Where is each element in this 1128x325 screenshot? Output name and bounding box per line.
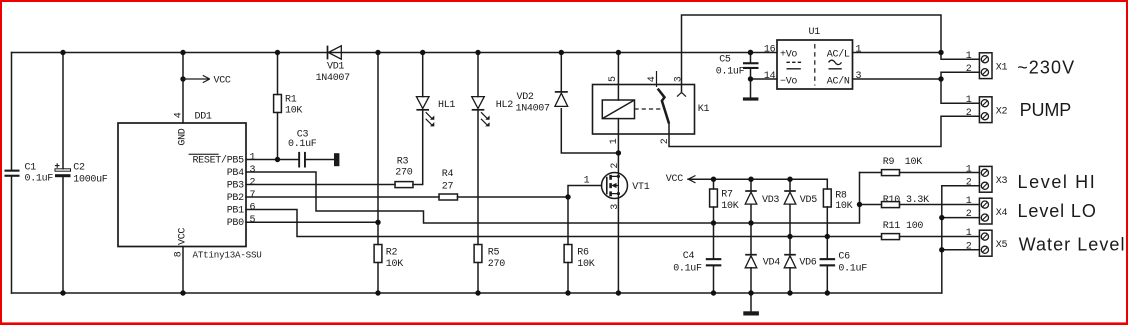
label C5 value bbox=[716, 55, 745, 78]
wire R6 branch bbox=[567, 197, 569, 293]
wire DD1 pin8 bbox=[182, 247, 184, 294]
label C3 value bbox=[288, 130, 317, 151]
resistor R6 bbox=[564, 245, 572, 263]
wire R1 branch bbox=[277, 53, 279, 160]
svg-text:1: 1 bbox=[966, 196, 972, 207]
svg-text:7: 7 bbox=[250, 190, 256, 201]
svg-text:C5: C5 bbox=[719, 55, 731, 66]
svg-text:1: 1 bbox=[966, 164, 972, 175]
relay pin3 contact chevron bbox=[677, 92, 686, 96]
capacitor C3 bbox=[298, 152, 306, 168]
relay blade contact bbox=[658, 89, 669, 124]
svg-text:1N4007: 1N4007 bbox=[516, 104, 551, 115]
svg-text:2: 2 bbox=[966, 108, 972, 119]
svg-text:6: 6 bbox=[250, 203, 256, 214]
resistor R7 bbox=[710, 189, 718, 207]
svg-text:VCC: VCC bbox=[177, 228, 188, 245]
svg-text:+Vo: +Vo bbox=[780, 49, 797, 60]
junctions on VCC row bbox=[711, 177, 793, 182]
svg-text:0.1uF: 0.1uF bbox=[673, 263, 702, 274]
svg-text:−Vo: −Vo bbox=[780, 76, 797, 87]
svg-text:VCC: VCC bbox=[214, 76, 231, 87]
LED HL1 bbox=[416, 97, 434, 127]
svg-text:0.1uF: 0.1uF bbox=[25, 173, 54, 184]
label C2 value bbox=[73, 163, 108, 186]
svg-text:PUMP: PUMP bbox=[1020, 100, 1072, 120]
svg-text:AC/N: AC/N bbox=[827, 75, 850, 87]
junction gate R4 R6 node bbox=[565, 194, 570, 199]
label R2 value bbox=[386, 248, 403, 270]
transistor VT1 MOSFET bbox=[602, 173, 628, 199]
svg-text:14: 14 bbox=[764, 71, 776, 82]
label R8 value bbox=[835, 190, 852, 211]
junction PB0 R2 node bbox=[375, 220, 380, 225]
svg-text:C4: C4 bbox=[683, 251, 695, 262]
wire R2 vertical from top rail bbox=[377, 53, 379, 294]
svg-text:5: 5 bbox=[250, 215, 256, 226]
svg-text:K1: K1 bbox=[698, 104, 710, 115]
junctions on sense row B bbox=[787, 234, 830, 239]
wire R10 to X4.1 bbox=[860, 204, 980, 206]
connector X5 bbox=[979, 230, 992, 256]
svg-text:3: 3 bbox=[250, 165, 256, 176]
svg-text:1: 1 bbox=[250, 153, 256, 164]
wire bottom rail bbox=[12, 292, 942, 294]
wire R11 to X5.1 bbox=[900, 236, 980, 238]
svg-text:X5: X5 bbox=[996, 240, 1008, 251]
wire relay pin3 mains loop bbox=[682, 15, 980, 93]
svg-text:100: 100 bbox=[906, 221, 923, 232]
svg-text:2: 2 bbox=[610, 163, 621, 169]
svg-text:X4: X4 bbox=[996, 208, 1008, 219]
label R1 value bbox=[285, 95, 302, 117]
power module U1 box bbox=[777, 40, 853, 89]
relay pin4 stub bbox=[656, 71, 658, 87]
wire U1 pin14 to C5 bbox=[751, 78, 778, 80]
svg-text:C1: C1 bbox=[25, 163, 37, 174]
svg-text:~230V: ~230V bbox=[1017, 57, 1075, 77]
svg-text:VD2: VD2 bbox=[517, 92, 534, 103]
svg-text:16: 16 bbox=[764, 45, 776, 56]
label C1 value bbox=[25, 163, 54, 185]
svg-text:VD4: VD4 bbox=[763, 258, 780, 269]
svg-text:8: 8 bbox=[174, 251, 185, 257]
resistor R4 bbox=[439, 194, 458, 200]
U1 pin names bbox=[780, 48, 850, 87]
wire PB2 to R4 to gate node bbox=[246, 196, 568, 198]
svg-text:PB3: PB3 bbox=[227, 181, 244, 192]
label C6 value bbox=[838, 252, 867, 275]
svg-text:2: 2 bbox=[966, 241, 972, 252]
svg-text:RESET/PB5: RESET/PB5 bbox=[192, 155, 244, 167]
junction RESET R1 C3 node bbox=[275, 157, 280, 162]
ground bar at C3 bbox=[334, 153, 339, 166]
svg-text:1000uF: 1000uF bbox=[73, 174, 108, 185]
U1 dashed divider bbox=[814, 44, 816, 86]
svg-text:VD5: VD5 bbox=[800, 195, 817, 206]
svg-text:DD1: DD1 bbox=[195, 112, 212, 123]
resistor R1 bbox=[274, 95, 282, 113]
wire relay pin2 to X2.2 bbox=[669, 116, 979, 146]
wire R9 to X3.1 bbox=[860, 172, 980, 174]
resistor R11 bbox=[882, 234, 900, 240]
svg-text:2: 2 bbox=[966, 209, 972, 220]
svg-text:VT1: VT1 bbox=[632, 182, 649, 193]
svg-text:10K: 10K bbox=[577, 259, 594, 270]
resistor R10 bbox=[882, 202, 900, 208]
svg-text:R3: R3 bbox=[397, 157, 409, 168]
diode VD2 bbox=[555, 92, 568, 107]
relay pin numbers 5 4 3 1 2 bbox=[608, 76, 684, 144]
wire PB1 jog to sense row B bbox=[246, 210, 882, 237]
wire gate riser VT1 bbox=[568, 186, 602, 198]
label R7 value bbox=[721, 190, 738, 212]
wire X1.2 jog bbox=[941, 72, 979, 103]
VCC net label arrow at DD1 bbox=[183, 75, 210, 82]
relay dashed link bbox=[635, 108, 663, 110]
capacitor C1 bbox=[5, 170, 20, 177]
capacitor C6 bbox=[820, 258, 836, 266]
U1 AC symbol bbox=[829, 60, 842, 69]
diode VD5 bbox=[784, 191, 796, 204]
svg-text:AC/L: AC/L bbox=[827, 48, 850, 60]
svg-text:1N4007: 1N4007 bbox=[316, 73, 351, 84]
junctions on sense row A bbox=[711, 220, 754, 225]
svg-text:X2: X2 bbox=[996, 107, 1008, 118]
svg-text:R7: R7 bbox=[721, 190, 733, 201]
connector pin numbers X1 bbox=[966, 51, 972, 253]
wire R8 branch C6 bbox=[826, 179, 828, 293]
wire left branch C1 bbox=[11, 53, 13, 294]
svg-text:0.1uF: 0.1uF bbox=[838, 264, 867, 275]
label R4 value bbox=[442, 169, 454, 193]
svg-text:PB0: PB0 bbox=[227, 218, 244, 229]
resistor R5 bbox=[474, 245, 482, 263]
junctions at X1 column bbox=[938, 50, 943, 82]
junction R9 R10 node bbox=[857, 202, 862, 207]
svg-text:R6: R6 bbox=[577, 248, 589, 259]
svg-text:2: 2 bbox=[966, 64, 972, 75]
svg-text:R5: R5 bbox=[488, 248, 500, 259]
label R9 value bbox=[883, 157, 922, 168]
svg-text:PB1: PB1 bbox=[227, 206, 244, 217]
wire U1 pin3 AC/N bbox=[853, 78, 942, 80]
svg-text:2: 2 bbox=[966, 177, 972, 188]
wire ground stub under rail bbox=[750, 293, 752, 311]
svg-text:X1: X1 bbox=[996, 63, 1008, 74]
svg-text:GND: GND bbox=[177, 128, 188, 145]
svg-text:1: 1 bbox=[966, 228, 972, 239]
svg-text:Level HI: Level HI bbox=[1018, 172, 1097, 192]
junctions at X3-X5 common column bbox=[939, 215, 944, 253]
connector X4 bbox=[979, 198, 992, 224]
junction VCC arrow node bbox=[180, 76, 185, 81]
wire DD1 pin4 bbox=[182, 53, 184, 124]
svg-text:PB4: PB4 bbox=[227, 168, 244, 179]
diode VD1 bbox=[328, 46, 342, 60]
RESET overline bbox=[189, 154, 219, 155]
ground bar at C5 bbox=[743, 97, 759, 100]
label VD1 value bbox=[316, 62, 351, 85]
U1 pin numbers 16 14 1 3 bbox=[764, 45, 776, 82]
svg-text:270: 270 bbox=[488, 259, 505, 270]
svg-text:0.1uF: 0.1uF bbox=[288, 139, 317, 150]
svg-text:R8: R8 bbox=[835, 190, 847, 201]
wire C5 from top rail bbox=[750, 53, 752, 98]
svg-text:HL1: HL1 bbox=[438, 100, 455, 111]
label R10 value bbox=[883, 195, 929, 206]
VCC net label arrow left bbox=[688, 176, 695, 183]
capacitor C5 bbox=[743, 62, 759, 69]
svg-text:R2: R2 bbox=[386, 248, 398, 259]
svg-text:R1: R1 bbox=[285, 95, 297, 106]
LED HL2 bbox=[472, 97, 490, 127]
relay K1 box bbox=[593, 85, 695, 135]
connector X3 bbox=[979, 166, 992, 192]
microcontroller DD1 box bbox=[118, 123, 246, 247]
capacitor C4 bbox=[706, 258, 722, 266]
svg-text:0.1uF: 0.1uF bbox=[716, 67, 745, 78]
junctions on bottom rail bbox=[60, 290, 830, 295]
svg-text:10K: 10K bbox=[905, 157, 922, 168]
wire VT1 source to bottom rail bbox=[617, 199, 619, 294]
label R6 value bbox=[577, 248, 594, 270]
wire relay coil pin5 bbox=[617, 53, 619, 101]
wire VD2 branch bbox=[561, 53, 618, 154]
svg-text:2: 2 bbox=[660, 138, 671, 144]
wire top rail GND/VCC bbox=[12, 52, 778, 54]
svg-text:10K: 10K bbox=[386, 259, 403, 270]
resistor R3 bbox=[395, 182, 413, 188]
wire relay pin1 to VT1 drain bbox=[617, 119, 619, 173]
connector X2 bbox=[979, 97, 992, 123]
svg-text:3: 3 bbox=[674, 76, 685, 82]
diode VD6 bbox=[784, 255, 796, 268]
wire PB4 jog to sense row A bbox=[246, 172, 860, 223]
ground bar under diode network bbox=[743, 311, 759, 315]
wire R7 branch C4 bbox=[713, 179, 715, 293]
resistor R8 bbox=[823, 189, 831, 207]
label R11 value bbox=[883, 221, 924, 232]
svg-text:R11: R11 bbox=[883, 221, 900, 232]
svg-text:10K: 10K bbox=[721, 201, 738, 212]
svg-text:C6: C6 bbox=[838, 252, 850, 263]
junction VD2 drain node bbox=[616, 150, 621, 155]
label R3 value bbox=[395, 157, 412, 179]
svg-text:VD3: VD3 bbox=[762, 195, 779, 206]
svg-text:1: 1 bbox=[966, 51, 972, 62]
wire VD5 VD6 branch bbox=[789, 179, 791, 293]
resistor R2 bbox=[374, 245, 382, 263]
label R5 value bbox=[488, 248, 505, 270]
relay coil bbox=[602, 100, 634, 119]
wire VD3 VD4 branch bbox=[750, 179, 752, 293]
capacitor C2 polarized bbox=[55, 163, 71, 177]
svg-text:HL2: HL2 bbox=[496, 100, 513, 111]
wire PB0 bbox=[246, 221, 378, 223]
svg-text:2: 2 bbox=[250, 178, 256, 189]
wire U1 pin1 to X1 bbox=[853, 52, 942, 54]
svg-text:3: 3 bbox=[856, 71, 862, 82]
pin numbers DD1 right bbox=[250, 153, 256, 227]
connector X1 bbox=[979, 53, 992, 79]
wire X3.2 X4.2 X5.2 common bbox=[942, 186, 980, 293]
svg-text:VCC: VCC bbox=[666, 174, 683, 185]
svg-text:1: 1 bbox=[966, 95, 972, 106]
svg-text:1: 1 bbox=[856, 45, 862, 56]
junctions on top rail bbox=[60, 50, 753, 55]
svg-text:R9: R9 bbox=[883, 157, 895, 168]
svg-text:U1: U1 bbox=[809, 27, 821, 38]
label VD2 value bbox=[516, 92, 551, 115]
U1 DC symbol bbox=[787, 62, 802, 69]
svg-text:VD1: VD1 bbox=[327, 62, 344, 73]
svg-text:27: 27 bbox=[442, 182, 454, 193]
svg-text:10K: 10K bbox=[835, 201, 852, 212]
svg-text:VD6: VD6 bbox=[799, 258, 816, 269]
junctions at C5 bbox=[748, 50, 753, 82]
svg-text:4: 4 bbox=[647, 76, 658, 82]
resistor R9 bbox=[882, 170, 900, 176]
pin name RESET/PB5 bbox=[192, 155, 244, 230]
wire RESET/PB5 to C3 bbox=[246, 159, 334, 161]
svg-text:3: 3 bbox=[610, 204, 621, 210]
svg-text:3.3K: 3.3K bbox=[906, 195, 929, 206]
svg-text:5: 5 bbox=[608, 76, 619, 82]
svg-text:1: 1 bbox=[584, 176, 590, 187]
svg-text:PB2: PB2 bbox=[227, 193, 244, 204]
svg-text:1: 1 bbox=[609, 138, 620, 144]
diode VD3 bbox=[745, 191, 757, 204]
svg-text:4: 4 bbox=[174, 112, 185, 118]
svg-text:R4: R4 bbox=[442, 169, 454, 180]
svg-text:C2: C2 bbox=[73, 163, 85, 174]
svg-text:R10: R10 bbox=[883, 195, 900, 206]
wire VCC row R7 VD3 VD5 R8 bbox=[688, 178, 827, 180]
svg-text:270: 270 bbox=[395, 168, 412, 179]
wire C2 branch bbox=[62, 53, 64, 294]
wire HL1 anode bbox=[422, 53, 424, 97]
label C4 value bbox=[673, 251, 702, 274]
svg-text:Water Level: Water Level bbox=[1019, 235, 1126, 255]
svg-text:ATtiny13A-SSU: ATtiny13A-SSU bbox=[193, 250, 262, 261]
svg-text:10K: 10K bbox=[285, 105, 302, 116]
wire HL2 branch R5 bbox=[477, 53, 479, 294]
wire PB3 to R3 to HL1 bbox=[246, 110, 423, 185]
diode VD4 bbox=[745, 255, 757, 268]
svg-text:Level LO: Level LO bbox=[1018, 201, 1097, 221]
svg-text:X3: X3 bbox=[996, 176, 1008, 187]
